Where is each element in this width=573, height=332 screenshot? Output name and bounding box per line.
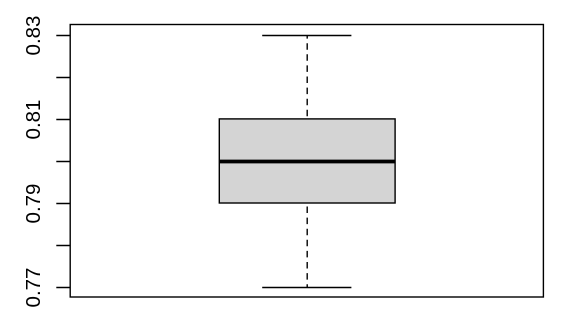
median line [219, 160, 395, 164]
y-axis tick 0.81 [56, 119, 70, 121]
y-axis tick 0.82 [56, 77, 70, 79]
y-axis tick 0.83 [56, 35, 70, 37]
svg-text:0.79: 0.79 [22, 184, 45, 224]
svg-text:0.77: 0.77 [22, 268, 45, 308]
box IQR [219, 119, 395, 203]
svg-text:0.83: 0.83 [22, 16, 45, 56]
svg-text:0.81: 0.81 [22, 100, 45, 140]
upper whisker dashed line [306, 36, 308, 119]
y-axis tick 0.78 [56, 245, 70, 247]
y-axis tick 0.79 [56, 203, 70, 205]
upper whisker cap [262, 35, 351, 37]
plot frame [70, 25, 543, 298]
y-axis tick 0.77 [56, 287, 70, 289]
y-axis tick 0.80 [56, 161, 70, 163]
lower whisker cap [262, 287, 351, 289]
lower whisker dashed line [306, 203, 308, 288]
